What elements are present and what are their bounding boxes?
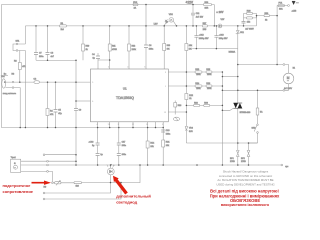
svg-text:2R5: 2R5 <box>203 29 208 31</box>
svg-text:12: 12 <box>132 124 135 126</box>
svg-text:5A: 5A <box>260 111 263 114</box>
resistor R4 chain <box>46 82 53 127</box>
svg-text:2k4: 2k4 <box>61 29 65 31</box>
varistor RU1 <box>230 143 239 165</box>
svg-text:13: 13 <box>108 124 111 126</box>
wire x=277.1 <box>276 6 278 65</box>
transformer box T1 <box>11 156 21 172</box>
gray warning text EN <box>216 170 275 187</box>
terminal +12V battery <box>288 1 299 12</box>
svg-text:R4: R4 <box>50 111 53 113</box>
wire y=193 <box>43 183 110 194</box>
fuse FU1 top right <box>277 3 288 11</box>
capacitor C5 chain <box>54 82 63 127</box>
resistor R24 <box>194 103 200 107</box>
svg-text:10k: 10k <box>150 146 153 148</box>
svg-text:+ 26V: + 26V <box>216 10 223 14</box>
svg-text:U1: U1 <box>123 86 127 90</box>
potentiometer RP1 <box>44 181 75 189</box>
svg-text:+C12: +C12 <box>199 34 205 36</box>
triac VS1 <box>222 49 251 143</box>
wire: +26V column x=214.3 <box>213 5 215 26</box>
wire y=76.5 jog <box>222 76 237 78</box>
wire row86 <box>168 85 222 87</box>
IC pin numbers <box>92 67 167 127</box>
svg-text:R21: R21 <box>166 142 171 144</box>
svg-text:C11: C11 <box>196 13 200 15</box>
input connector XS1 <box>1 76 6 88</box>
capacitor C13 electrolytic <box>214 26 228 49</box>
svg-text:1µ: 1µ <box>92 145 95 147</box>
svg-text:C4: C4 <box>92 54 95 56</box>
resistor R16 <box>174 101 182 115</box>
svg-text:VD6: VD6 <box>189 128 194 130</box>
svg-text:275В: 275В <box>230 161 235 163</box>
zener VD6 <box>185 127 194 133</box>
wire from box y=165 <box>21 164 47 166</box>
wire: input signal y=82.1 <box>5 81 90 83</box>
svg-text:ВР2: ВР2 <box>241 158 246 160</box>
capacitor C7 from rail <box>34 26 43 60</box>
svg-text:R3: R3 <box>12 73 15 75</box>
svg-text:R14: R14 <box>150 143 155 145</box>
wire y=199 <box>43 183 121 200</box>
IC U1 TDA1563Q <box>91 69 169 122</box>
wire x=222.4 vertical <box>221 72 223 165</box>
svg-text:1µ: 1µ <box>93 58 96 60</box>
resistor R22 <box>185 94 194 101</box>
svg-text:R16: R16 <box>178 105 183 107</box>
svg-text:VD7: VD7 <box>221 19 226 21</box>
svg-text:C17: C17 <box>122 142 127 144</box>
capacitor C11 from top rail <box>191 5 204 26</box>
svg-text:B1: B1 <box>293 68 296 70</box>
svg-text:10R: 10R <box>205 8 209 10</box>
resistor R23 <box>195 69 202 76</box>
svg-text:10k: 10k <box>189 45 192 47</box>
red arrow to LED <box>113 176 128 195</box>
svg-text:47k: 47k <box>50 114 53 116</box>
wire from box y=161.2 <box>21 160 76 162</box>
svg-text:R12: R12 <box>132 46 137 48</box>
svg-text:светодиод: светодиод <box>116 199 137 204</box>
parallel resistors R28 <box>244 11 257 24</box>
wire row105.4 <box>186 104 222 106</box>
capacitor C4 to IC pin <box>92 53 110 69</box>
switch SA1 <box>13 40 25 52</box>
svg-text:+12В: +12В <box>292 10 297 12</box>
svg-text:1k: 1k <box>265 19 267 21</box>
resistor R8 <box>74 165 140 187</box>
svg-text:BTW69-600: BTW69-600 <box>240 112 252 114</box>
svg-text:9V1: 9V1 <box>240 32 244 34</box>
svg-text:трансформатора!: трансформатора! <box>228 207 260 208</box>
wire: x=25.4 vertical <box>24 26 26 128</box>
svg-text:250k: 250k <box>196 74 200 76</box>
svg-text:275В: 275В <box>241 161 246 163</box>
diode VD7 circled on rail <box>218 19 225 28</box>
svg-text:R11: R11 <box>112 46 116 48</box>
resistor R21 <box>162 140 171 147</box>
svg-text:100µ 25V: 100µ 25V <box>219 38 228 40</box>
svg-text:1000µ 25V: 1000µ 25V <box>199 38 209 40</box>
svg-text:330: 330 <box>167 45 171 47</box>
capacitor C8 from rail <box>46 26 55 60</box>
svg-text:Вх: Вх <box>4 73 6 75</box>
svg-text:250k: 250k <box>196 88 200 90</box>
svg-text:1k: 1k <box>189 98 191 100</box>
svg-text:R22: R22 <box>189 95 194 97</box>
red warning text UA <box>210 189 280 212</box>
svg-text:1%: 1% <box>189 49 192 51</box>
wire y=143 <box>186 142 257 144</box>
wire: left border / ground bus <box>2 5 164 128</box>
wire y=60.25 <box>36 59 76 61</box>
svg-text:1%: 1% <box>167 49 170 51</box>
svg-text:4n7: 4n7 <box>51 56 55 58</box>
svg-text:+C13: +C13 <box>219 34 225 36</box>
svg-text:C5: C5 <box>58 110 61 112</box>
resistor R24 <box>195 83 202 90</box>
wire x=187 vertical <box>185 72 187 143</box>
svg-text:дополнительный: дополнительный <box>116 194 151 199</box>
resistor R26 <box>204 103 210 107</box>
zener VD8 column <box>236 26 245 49</box>
wire: input return y=87.6 <box>5 87 20 128</box>
AC source B1 <box>283 64 296 92</box>
svg-text:AC 230V: AC 230V <box>284 87 293 90</box>
wire from box y=171.4 to potentiometer <box>21 171 53 182</box>
resistor R10 from rail <box>82 26 91 60</box>
svg-text:C9: C9 <box>79 110 82 112</box>
red arrow to potentiometer <box>32 181 52 185</box>
svg-text:47k: 47k <box>22 66 25 68</box>
wire y=154.7 aux <box>43 154 76 156</box>
svg-text:10A: 10A <box>279 8 283 11</box>
svg-text:100n: 100n <box>39 56 43 58</box>
svg-text:100n: 100n <box>166 134 170 136</box>
resistor R1 on rail <box>60 23 67 31</box>
svg-text:4n7 630V: 4n7 630V <box>245 28 254 30</box>
capacitor C6 from top wire to IC <box>144 5 153 70</box>
capacitor C15 <box>242 18 255 30</box>
svg-text:220k: 220k <box>132 49 136 51</box>
resistor R30 <box>264 13 277 22</box>
svg-text:R9: R9 <box>44 187 47 189</box>
svg-text:R10: R10 <box>86 46 91 48</box>
wire row112 stub <box>168 111 186 113</box>
svg-text:100n: 100n <box>122 145 126 147</box>
resistor R14 chain <box>146 128 155 166</box>
capacitor C19 <box>161 130 170 136</box>
svg-text:250k: 250k <box>207 88 211 90</box>
svg-text:1k: 1k <box>86 49 88 51</box>
svg-text:C19: C19 <box>166 130 171 132</box>
pushbutton SB1 <box>174 117 180 121</box>
wire: x=76 vertical <box>74 60 82 165</box>
resistor R12 from rail to IC <box>128 26 137 69</box>
resistor R25 <box>206 69 212 76</box>
svg-text:XS1: XS1 <box>1 76 6 78</box>
wire: stub y=75.5 <box>4 73 15 75</box>
resistor R29 on top rail <box>204 2 212 10</box>
svg-text:2A: 2A <box>134 7 137 10</box>
wire: bottom bus y=165 <box>47 164 289 168</box>
svg-text:C7: C7 <box>39 53 42 55</box>
wire x=256.5 corner <box>257 16 265 26</box>
svg-text:МЛ02А: МЛ02А <box>229 51 236 54</box>
svg-text:SA1: SA1 <box>16 40 21 43</box>
svg-text:250k: 250k <box>207 74 211 76</box>
capacitor C2 inline <box>34 79 40 84</box>
svg-text:47µ: 47µ <box>58 113 62 115</box>
LED HL1 <box>107 164 114 182</box>
diode VD3 circled <box>169 18 177 26</box>
svg-text:сопротивление: сопротивление <box>3 189 34 194</box>
resistor R27 on rail <box>202 23 207 31</box>
svg-text:1µ: 1µ <box>100 154 103 156</box>
svg-text:Тфн1: Тфн1 <box>11 156 17 159</box>
svg-text:15k: 15k <box>247 21 250 23</box>
wire row72 <box>168 71 222 73</box>
svg-text:470R: 470R <box>112 49 117 51</box>
svg-text:C6: C6 <box>149 45 152 47</box>
svg-text:5V6: 5V6 <box>189 131 193 133</box>
resistor R2 <box>14 51 26 83</box>
switch SA2 <box>249 124 259 143</box>
svg-text:ВР1: ВР1 <box>230 158 235 160</box>
svg-text:7,5V: 7,5V <box>154 23 159 25</box>
svg-text:USED during DEVELOPMENT and TE: USED during DEVELOPMENT and TESTING <box>216 183 275 187</box>
wire row y=48.6 <box>192 49 238 54</box>
svg-text:VD2: VD2 <box>169 14 174 16</box>
IC bottom pin leads <box>98 122 164 165</box>
red text: dopolnitelny svetodiod <box>116 194 151 205</box>
capacitor C12 electrolytic <box>194 26 209 49</box>
wire: stub to IC pin 6 <box>76 100 91 102</box>
resistor R11 from rail to IC <box>108 26 117 69</box>
fuse FU3 right <box>256 90 263 124</box>
svg-text:TDA1563Q: TDA1563Q <box>116 96 134 100</box>
svg-text:вход сигнала: вход сигнала <box>3 93 17 95</box>
svg-text:+C16: +C16 <box>89 142 95 144</box>
svg-text:100n: 100n <box>122 154 126 156</box>
svg-text:подстроечное: подстроечное <box>3 183 32 188</box>
wire: main rail y=25.9 <box>25 25 256 27</box>
wire y=64.5 AC top <box>238 64 283 66</box>
svg-text:10k: 10k <box>166 145 169 147</box>
fuse FU2 on top rail <box>133 2 138 10</box>
wire: top +12V rail y=4.5 <box>2 4 215 6</box>
svg-text:C8: C8 <box>51 53 54 55</box>
resistor R26 <box>206 83 212 90</box>
svg-text:~: ~ <box>287 79 289 83</box>
wire y=90.3 AC bottom <box>222 89 283 91</box>
svg-text:100n: 100n <box>149 49 153 51</box>
svg-text:C2: C2 <box>34 79 37 81</box>
svg-text:4n7 2kV: 4n7 2kV <box>196 16 204 18</box>
svg-text:крн: крн <box>285 166 288 168</box>
resistor R20 column to IC top <box>163 26 171 69</box>
resistor R13 column to row72 <box>185 26 192 72</box>
svg-text:R2: R2 <box>14 61 17 63</box>
capacitor C17 chain <box>117 128 126 166</box>
diode VD2 slanted <box>164 14 173 26</box>
svg-text:1k8: 1k8 <box>76 185 80 187</box>
red text: podstroechnoe soprotivlenie <box>3 183 34 194</box>
capacitor C16 chain <box>89 128 104 166</box>
varistor RU2 <box>241 143 250 165</box>
